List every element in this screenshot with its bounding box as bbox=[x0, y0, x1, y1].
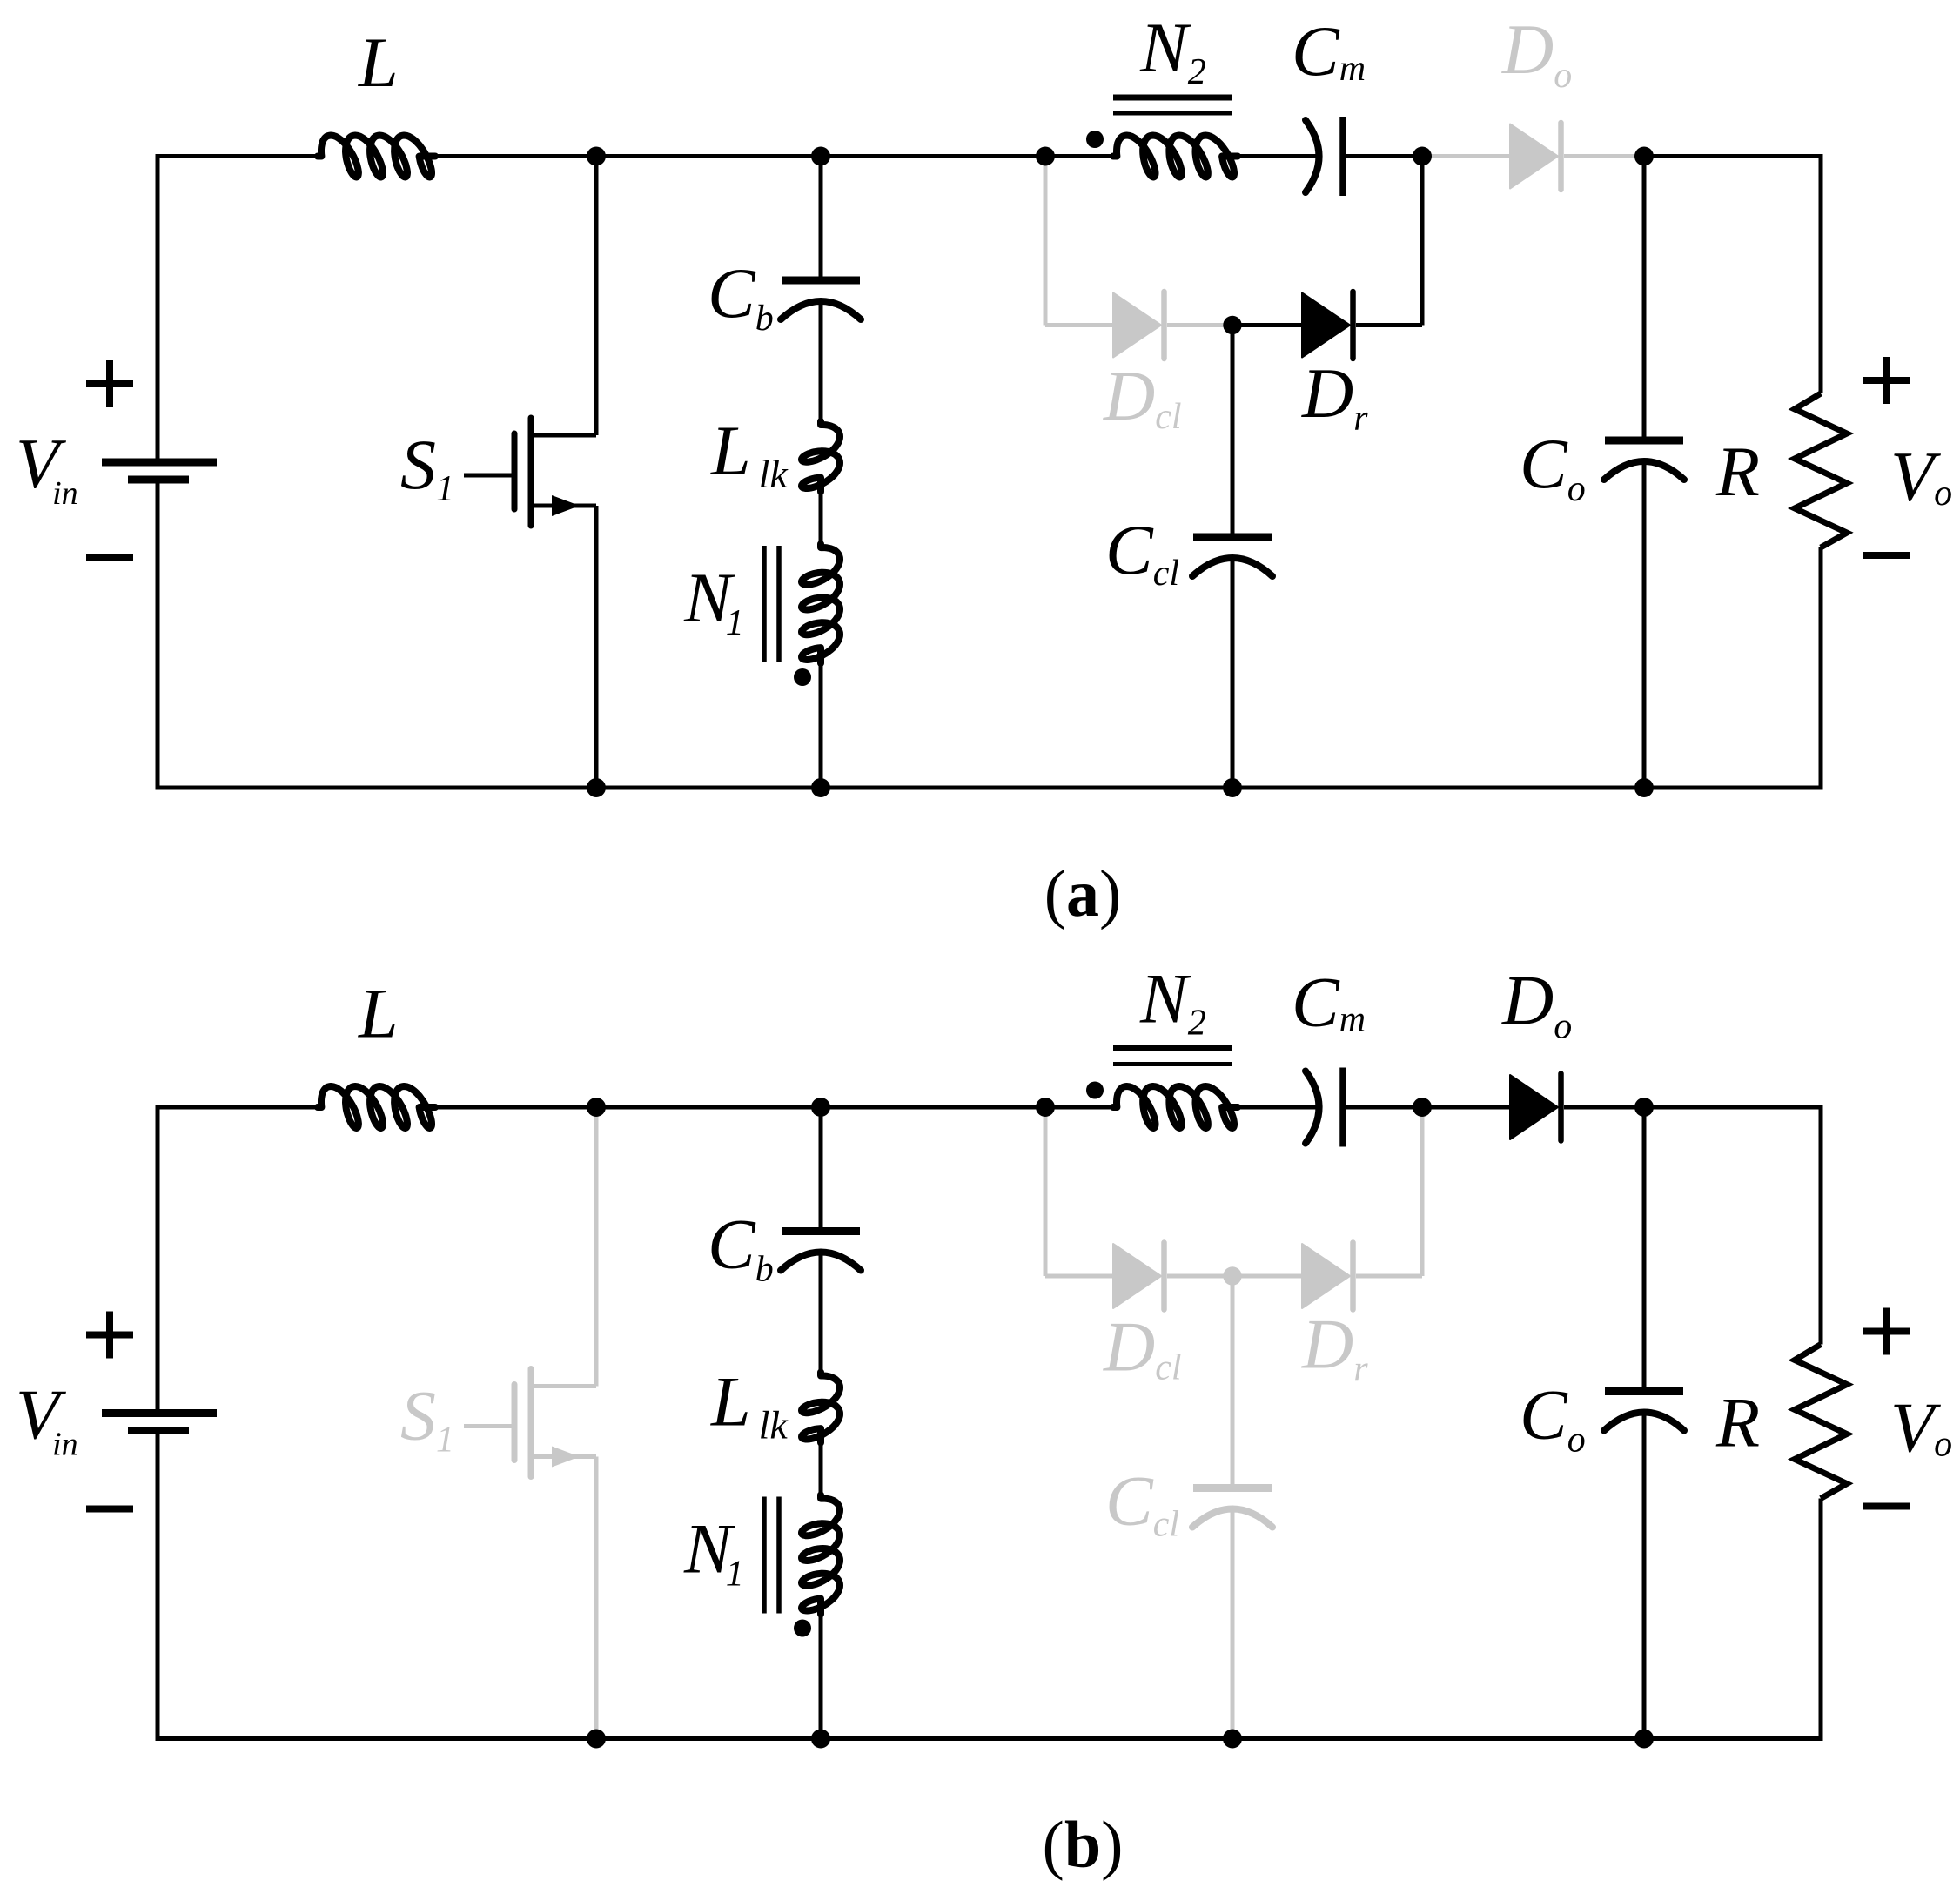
svg-text:R: R bbox=[1715, 1383, 1760, 1462]
svg-text:L: L bbox=[358, 23, 399, 102]
svg-text:R: R bbox=[1715, 432, 1760, 511]
svg-text:(b): (b) bbox=[1043, 1809, 1124, 1882]
svg-text:L: L bbox=[358, 974, 399, 1053]
svg-text:(a): (a) bbox=[1044, 857, 1122, 930]
